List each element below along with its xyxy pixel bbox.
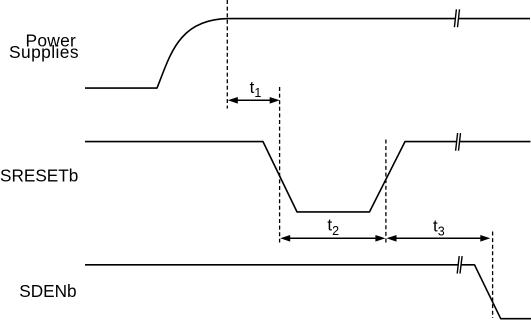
t2 dimension arrow <box>280 235 385 242</box>
t1 dimension arrow <box>228 97 280 104</box>
svg-text:SDENb: SDENb <box>19 281 76 301</box>
svg-text:t3: t3 <box>433 216 445 238</box>
svg-text:t1: t1 <box>250 78 262 100</box>
t3 dimension arrow <box>387 235 491 242</box>
break mark on power supplies line <box>454 9 459 27</box>
svg-text:SRESETb: SRESETb <box>0 166 78 186</box>
break mark on SDENb line <box>457 256 462 274</box>
dashed line: power-good instant (t1 start) <box>226 0 228 109</box>
wire: SRESETb waveform (high, fall, low, rise, high) <box>85 142 531 212</box>
dashed line: SRESETb falling edge (t1 end / t2 start) <box>279 87 281 243</box>
svg-text:Supplies: Supplies <box>9 42 79 62</box>
label: Power Supplies <box>9 30 79 61</box>
wire: SDENb waveform (high, fall, low) <box>85 265 531 319</box>
dashed line: SDENb falling edge (t3 end) <box>492 232 494 319</box>
svg-text:t2: t2 <box>327 216 339 238</box>
wire: power supplies waveform (low, ramp, high) <box>85 19 530 89</box>
break mark on SRESETb line <box>456 133 461 151</box>
dashed line: SRESETb rising edge (t2 end / t3 start) <box>385 140 387 245</box>
